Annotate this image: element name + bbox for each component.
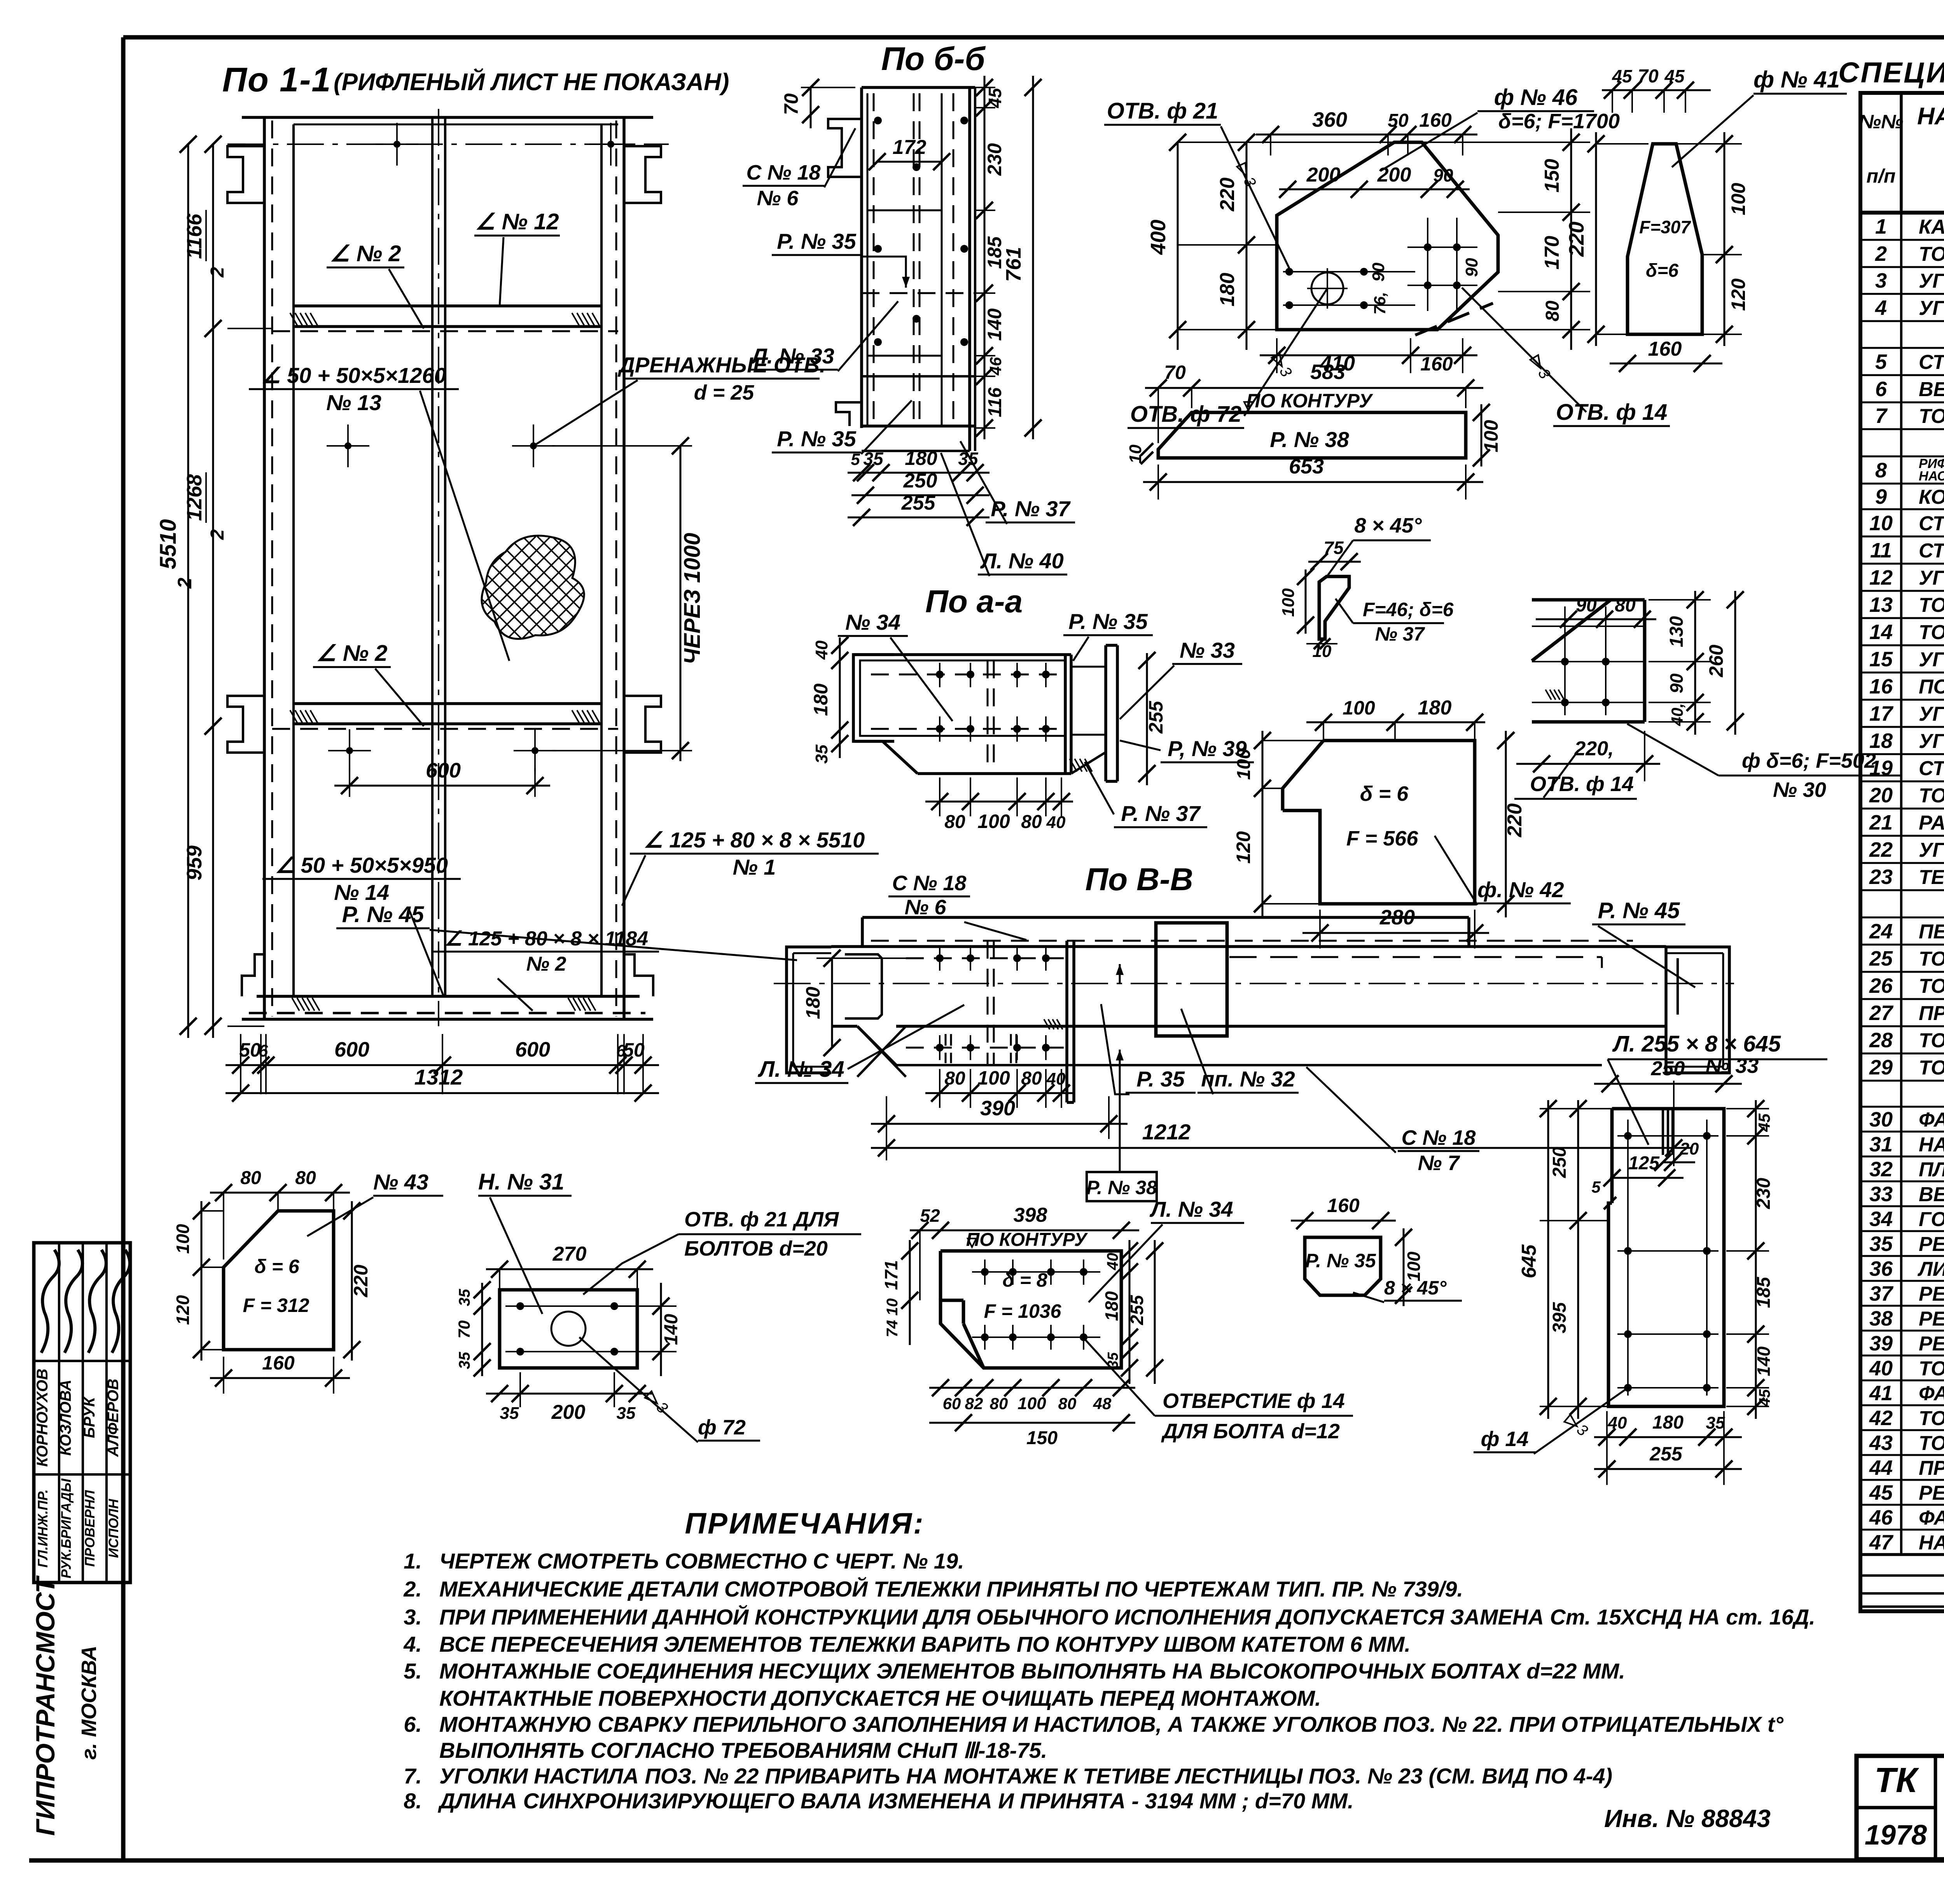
svg-text:F=46; δ=6: F=46; δ=6 (1363, 599, 1454, 620)
svg-text:ДЛЯ БОЛТА d=12: ДЛЯ БОЛТА d=12 (1161, 1420, 1340, 1443)
svg-text:По 1-1: По 1-1 (222, 60, 332, 99)
view A: frame column section (227, 109, 669, 1026)
svg-text:∠ № 2: ∠ № 2 (316, 641, 388, 666)
svg-text:ВЫПОЛНЯТЬ СОГЛАСНО ТРЕБОВАНИЯМ: ВЫПОЛНЯТЬ СОГЛАСНО ТРЕБОВАНИЯМ СНиП Ⅲ-18… (439, 1738, 1047, 1763)
svg-text:ОТВ. ф 14: ОТВ. ф 14 (1530, 772, 1634, 796)
svg-text:761: 761 (1002, 247, 1025, 282)
svg-text:35: 35 (1869, 1232, 1893, 1256)
view J bottom dims 80 100 80 40 (925, 1067, 1073, 1108)
svg-text:ГЛ.ИНЖ.ПР.: ГЛ.ИНЖ.ПР. (35, 1489, 51, 1567)
svg-text:ДЛИНА СИНХРОНИЗИРУЮЩЕГО ВАЛА И: ДЛИНА СИНХРОНИЗИРУЮЩЕГО ВАЛА ИЗМЕНЕНА И … (438, 1789, 1354, 1813)
spec table rows (1860, 213, 1944, 1555)
svg-text:δ = 6: δ = 6 (254, 1256, 300, 1277)
detail C bottom dims 410 160 (1260, 338, 1477, 375)
svg-text:С № 18: С № 18 (746, 161, 821, 184)
svg-text:ПО КОНТУРУ: ПО КОНТУРУ (966, 1230, 1088, 1250)
svg-text:40: 40 (812, 640, 831, 660)
svg-text:Р. № 35: Р. № 35 (777, 426, 856, 451)
svg-text:№ 6: № 6 (757, 187, 799, 210)
svg-text:220: 220 (1216, 178, 1239, 212)
totals rows (1860, 1553, 1944, 1613)
svg-text:№ 33: № 33 (1180, 638, 1235, 662)
svg-text:220: 220 (1503, 804, 1526, 838)
svg-text:45: 45 (1869, 1481, 1893, 1504)
svg-text:42: 42 (1869, 1406, 1893, 1430)
svg-text:4: 4 (1875, 296, 1887, 320)
svg-text:ФАСОНКА ТЕЛЕЖКИ: ФАСОНКА ТЕЛЕЖКИ (1919, 1382, 1944, 1405)
detail C dims 200 200 90 (1279, 164, 1470, 198)
svg-text:Л. № 33: Л. № 33 (750, 344, 834, 368)
svg-text:171: 171 (881, 1260, 901, 1290)
svg-text:80: 80 (1058, 1394, 1077, 1413)
svg-text:ВЕРТИК. ЛИСТ КОРОБА: ВЕРТИК. ЛИСТ КОРОБА (1919, 1183, 1944, 1206)
svg-text:360: 360 (1312, 108, 1347, 131)
svg-text:250: 250 (1549, 1147, 1570, 1178)
view G right dim 255 (1138, 652, 1167, 785)
svg-text:70: 70 (780, 93, 802, 115)
svg-text:180: 180 (810, 683, 832, 716)
detail H top dims 100 180 (1306, 697, 1485, 741)
svg-text:140: 140 (984, 308, 1005, 341)
view G section (853, 645, 1117, 781)
svg-text:600: 600 (515, 1038, 550, 1061)
svg-text:40: 40 (1046, 813, 1066, 832)
svg-text:1978: 1978 (1865, 1820, 1927, 1851)
svg-text:ф № 46: ф № 46 (1494, 85, 1578, 110)
svg-text:255: 255 (1145, 700, 1167, 734)
svg-text:255: 255 (1127, 1294, 1147, 1325)
svg-text:№ 13: № 13 (326, 390, 381, 415)
svg-text:27: 27 (1869, 1001, 1894, 1025)
svg-text:F = 566: F = 566 (1346, 827, 1419, 850)
svg-text:УГОЛОК СВЯЗУЮЩИЙ: УГОЛОК СВЯЗУЮЩИЙ (1919, 648, 1944, 671)
svg-text:ТО ЖЕ: ТО ЖЕ (1919, 594, 1944, 617)
svg-text:г. МОСКВА: г. МОСКВА (77, 1645, 101, 1759)
svg-text:600: 600 (334, 1038, 369, 1061)
svg-text:ТО ЖЕ: ТО ЖЕ (1919, 243, 1944, 266)
svg-text:ТК: ТК (1874, 1761, 1920, 1800)
svg-text:УГОЛОК: УГОЛОК (1919, 270, 1944, 292)
svg-text:ТО ЖЕ: ТО ЖЕ (1919, 1357, 1944, 1380)
detail H left dims 100 120 (1232, 731, 1323, 917)
svg-text:8: 8 (1875, 459, 1887, 482)
svg-text:ОТВ. ф 21 ДЛЯ: ОТВ. ф 21 ДЛЯ (684, 1208, 839, 1231)
svg-text:С № 18: С № 18 (1402, 1126, 1476, 1149)
svg-text:200: 200 (1306, 164, 1341, 186)
svg-text:45: 45 (985, 87, 1005, 108)
svg-text:36: 36 (1869, 1257, 1893, 1280)
svg-text:100: 100 (1727, 183, 1749, 215)
svg-text:ТО ЖЕ: ТО ЖЕ (1919, 784, 1944, 807)
svg-text:60: 60 (943, 1394, 961, 1413)
svg-text:№ 30: № 30 (1773, 778, 1826, 802)
svg-text:46: 46 (986, 357, 1005, 376)
svg-text:35: 35 (1105, 1352, 1121, 1369)
detail I right dims 130 90 40 260 (1649, 591, 1744, 735)
detail N top dim 160 (1291, 1195, 1396, 1229)
detail H right dim 220 (1497, 731, 1526, 917)
svg-text:С № 18: С № 18 (892, 872, 967, 895)
svg-text:8 × 45°: 8 × 45° (1354, 514, 1422, 537)
organization name rotated (31, 1575, 101, 1836)
svg-text:959: 959 (183, 845, 206, 880)
view A bottom dimensions (226, 1034, 659, 1102)
svg-text:100: 100 (1017, 1394, 1046, 1413)
view J dim 1212 (871, 1081, 1691, 1166)
svg-text:180: 180 (802, 987, 824, 1019)
svg-text:ПО КОНТУРУ: ПО КОНТУРУ (1246, 390, 1374, 412)
svg-text:40: 40 (1608, 1413, 1627, 1432)
svg-text:45: 45 (1756, 1389, 1773, 1407)
detail E dim 653 (1143, 455, 1483, 500)
svg-text:398: 398 (1014, 1204, 1047, 1226)
svg-text:СПЕЦИФИКАЦИЯ МЕТАЛЛА НА ОДН: СПЕЦИФИКАЦИЯ МЕТАЛЛА НА ОДНУ ТЕЛЕЖКУ (1838, 56, 1944, 89)
view A dimension 600 (middle) (334, 759, 550, 797)
detail K top dims 80 80 (210, 1168, 350, 1259)
svg-text:F=307: F=307 (1639, 217, 1691, 237)
detail L left dims 35 70 35 (455, 1281, 491, 1376)
svg-text:46: 46 (1869, 1506, 1893, 1529)
detail O top dim 250 (1594, 1057, 1742, 1092)
detail M right dims 40 180 35 255 (1101, 1240, 1163, 1384)
svg-text:9: 9 (1875, 485, 1887, 508)
svg-text:47: 47 (1869, 1531, 1894, 1554)
svg-text:КОРНОУХОВ: КОРНОУХОВ (34, 1369, 51, 1467)
svg-text:Л. № 34: Л. № 34 (1149, 1197, 1233, 1221)
svg-text:255: 255 (901, 492, 936, 514)
svg-text:ПЕРИЛЬНОЕ ЗАПОЛНЕНИЕ: ПЕРИЛЬНОЕ ЗАПОЛНЕНИЕ (1919, 921, 1944, 943)
svg-text:22: 22 (1869, 838, 1893, 861)
svg-text:№ 43: № 43 (373, 1170, 428, 1194)
svg-text:ГОРИЗОНТАЛ. ЛИСТ: ГОРИЗОНТАЛ. ЛИСТ (1919, 1208, 1944, 1231)
svg-text:37: 37 (1869, 1282, 1894, 1305)
svg-text:Р. № 35: Р. № 35 (777, 229, 856, 253)
detail D bottom dim 160 (1610, 338, 1722, 372)
svg-text:80: 80 (1542, 300, 1563, 321)
svg-text:230: 230 (984, 143, 1005, 176)
svg-text:20: 20 (1680, 1139, 1699, 1158)
svg-text:80: 80 (1615, 595, 1636, 616)
detail I top dims 90 80 (1536, 595, 1656, 628)
svg-text:ПРОКЛАДКА: ПРОКЛАДКА (1919, 1457, 1944, 1480)
svg-text:17: 17 (1869, 702, 1894, 725)
svg-text:НАКЛАДКА: НАКЛАДКА (1919, 1134, 1944, 1156)
detail M bottom dims 60 82 80 100 80 48 150 (929, 1379, 1135, 1448)
svg-text:220: 220 (1565, 222, 1588, 257)
svg-text:Л. № 40: Л. № 40 (980, 548, 1064, 573)
svg-text:80: 80 (944, 812, 965, 832)
svg-text:ОТВ. ф 21: ОТВ. ф 21 (1107, 98, 1218, 124)
svg-text:140: 140 (1753, 1346, 1774, 1376)
svg-text:ФАСОНКА: ФАСОНКА (1919, 1109, 1944, 1131)
svg-text:1166: 1166 (183, 213, 206, 259)
detail H plate ф№42 (1283, 741, 1475, 904)
detail N right dim 100 (1395, 1228, 1424, 1306)
svg-text:24: 24 (1869, 920, 1893, 943)
svg-text:№ 14: № 14 (334, 880, 389, 905)
svg-text:ЧЕРЕЗ 1000: ЧЕРЕЗ 1000 (680, 533, 705, 665)
svg-text:2: 2 (207, 529, 228, 540)
svg-text:160: 160 (1648, 338, 1682, 360)
detail D top dims 45 70 45 (1602, 66, 1711, 113)
svg-text:ТО ЖЕ: ТО ЖЕ (1919, 1057, 1944, 1079)
svg-text:РАСКОСЫ РАМЫ: РАСКОСЫ РАМЫ (1919, 812, 1944, 834)
svg-text:СТОЙКА ПЕРИЛЬНАЯ: СТОЙКА ПЕРИЛЬНАЯ (1919, 539, 1944, 562)
svg-text:180: 180 (905, 447, 937, 469)
svg-text:160: 160 (1327, 1195, 1360, 1216)
svg-text:№ 34: № 34 (845, 610, 900, 634)
svg-text:∠ № 2: ∠ № 2 (330, 241, 401, 266)
svg-text:35: 35 (617, 1404, 636, 1423)
svg-text:КОНТАКТНЫЕ ПОВЕРХНОСТИ ДОПУСКА: КОНТАКТНЫЕ ПОВЕРХНОСТИ ДОПУСКАЕТСЯ НЕ ОЧ… (439, 1686, 1321, 1710)
svg-text:125: 125 (1628, 1153, 1660, 1174)
view B right dim chain (975, 76, 1005, 439)
svg-text:СТОЙКА ТЕЛЕЖКИ: СТОЙКА ТЕЛЕЖКИ (1919, 512, 1944, 535)
svg-text:70: 70 (1164, 362, 1186, 383)
svg-text:230: 230 (1753, 1178, 1774, 1209)
svg-text:ЛИСТ: ЛИСТ (1917, 1258, 1944, 1280)
svg-text:п/п: п/п (1867, 165, 1896, 187)
svg-text:120: 120 (173, 1295, 193, 1325)
detail M left dims 171 74 10 (881, 1240, 918, 1345)
svg-text:200: 200 (1377, 164, 1411, 186)
view J dim 390 (871, 1096, 1128, 1160)
detail C gusset plate ф№46 (1277, 142, 1498, 335)
svg-text:40: 40 (1869, 1357, 1893, 1380)
svg-text:1: 1 (1875, 215, 1887, 238)
svg-text:38: 38 (1869, 1307, 1893, 1330)
svg-text:РЕБРО ВЕРТИКАЛЬН.: РЕБРО ВЕРТИКАЛЬН. (1919, 1308, 1944, 1330)
svg-text:5.: 5. (404, 1659, 422, 1683)
svg-text:∠ 50 + 50×5×950: ∠ 50 + 50×5×950 (275, 853, 448, 877)
svg-text:150: 150 (1541, 159, 1563, 193)
svg-text:Р. № 37: Р. № 37 (1121, 801, 1201, 826)
svg-text:100: 100 (977, 1067, 1010, 1089)
detail D left dim 220 (1565, 132, 1649, 346)
svg-text:∠ № 12: ∠ № 12 (475, 209, 559, 234)
detail C right dims 150 170 80 (1422, 128, 1590, 350)
svg-text:СТОЙКА РАМЫ: СТОЙКА РАМЫ (1919, 756, 1944, 780)
svg-text:Инв. № 88843: Инв. № 88843 (1604, 1804, 1771, 1832)
svg-text:45: 45 (1755, 1113, 1773, 1132)
svg-text:РЕБРО ОКАЙМЛЯЮЩЕЕ: РЕБРО ОКАЙМЛЯЮЩЕЕ (1919, 1332, 1944, 1355)
view J dim 180 left (802, 950, 914, 1056)
view J label Р.№38 boxed (1087, 1172, 1157, 1201)
svg-text:ПРИМЕЧАНИЯ:: ПРИМЕЧАНИЯ: (685, 1507, 925, 1540)
svg-text:5510: 5510 (156, 519, 181, 569)
svg-text:ф δ=6; F=502: ф δ=6; F=502 (1742, 749, 1876, 772)
spec table (1859, 93, 1944, 1611)
svg-text:21: 21 (1869, 811, 1893, 834)
svg-text:∠ 50 + 50×5×1260: ∠ 50 + 50×5×1260 (261, 363, 446, 388)
svg-text:34: 34 (1869, 1207, 1893, 1231)
svg-text:8.: 8. (404, 1789, 422, 1813)
svg-text:80: 80 (944, 1068, 965, 1089)
detail D right dims 100 120 (1676, 132, 1749, 346)
svg-text:29: 29 (1869, 1056, 1893, 1079)
svg-text:180: 180 (1216, 273, 1239, 307)
svg-text:ВСЕ ПЕРЕСЕЧЕНИЯ ЭЛЕМЕНТОВ ТЕЛЕ: ВСЕ ПЕРЕСЕЧЕНИЯ ЭЛЕМЕНТОВ ТЕЛЕЖКИ ВАРИТЬ… (439, 1632, 1411, 1656)
svg-text:МОНТАЖНЫЕ СОЕДИНЕНИЯ НЕСУЩИХ Э: МОНТАЖНЫЕ СОЕДИНЕНИЯ НЕСУЩИХ ЭЛЕМЕНТОВ В… (439, 1659, 1625, 1683)
svg-text:35: 35 (1706, 1413, 1725, 1432)
svg-text:160: 160 (262, 1352, 295, 1374)
detail K bottom dim 160 (210, 1352, 350, 1394)
svg-text:δ = 6: δ = 6 (1360, 782, 1409, 805)
view B dim 70 (780, 79, 855, 128)
svg-text:50: 50 (1388, 110, 1409, 131)
svg-text:1268: 1268 (183, 474, 206, 521)
svg-text:7: 7 (1875, 404, 1888, 428)
svg-text:РЕБРО ГОРИЗОНТ.: РЕБРО ГОРИЗОНТ. (1919, 1482, 1944, 1504)
svg-text:УГОЛКИ НАСТИЛА ПОЗ. № 22 ПРИВА: УГОЛКИ НАСТИЛА ПОЗ. № 22 ПРИВАРИТЬ НА МО… (439, 1764, 1612, 1788)
svg-text:Р. № 35: Р. № 35 (1305, 1250, 1376, 1272)
svg-text:100: 100 (1279, 588, 1298, 617)
svg-text:Л. 255 × 8 × 645: Л. 255 × 8 × 645 (1612, 1031, 1781, 1057)
svg-text:№ 33: № 33 (1706, 1054, 1759, 1078)
svg-text:70: 70 (455, 1321, 473, 1339)
svg-text:14: 14 (1869, 620, 1893, 644)
detail K right dim 220 (343, 1201, 372, 1361)
svg-text:№ 7: № 7 (1418, 1151, 1461, 1175)
svg-text:Р. № 38: Р. № 38 (1086, 1177, 1157, 1198)
svg-text:ТО ЖЕ: ТО ЖЕ (1919, 405, 1944, 428)
svg-text:МЕХАНИЧЕСКИЕ ДЕТАЛИ СМОТРОВОЙ: МЕХАНИЧЕСКИЕ ДЕТАЛИ СМОТРОВОЙ ТЕЛЕЖКИ ПР… (439, 1577, 1463, 1601)
notes list (403, 1549, 1815, 1813)
detail O bottom dims 40 180 35 255 (1594, 1411, 1742, 1485)
svg-text:№№: №№ (1859, 111, 1904, 133)
svg-text:10: 10 (1869, 512, 1893, 535)
svg-text:45: 45 (1664, 66, 1685, 86)
detail O dims 20 125 (1603, 1139, 1699, 1186)
svg-text:39: 39 (1869, 1332, 1893, 1355)
svg-text:43: 43 (1869, 1431, 1893, 1455)
svg-text:По В-В: По В-В (1085, 862, 1193, 897)
svg-text:ПОДКОС: ПОДКОС (1919, 676, 1944, 698)
svg-text:ТО ЖЕ: ТО ЖЕ (1919, 1029, 1944, 1052)
svg-text:БОЛТОВ d=20: БОЛТОВ d=20 (684, 1237, 828, 1260)
svg-text:15: 15 (1869, 648, 1893, 671)
svg-text:31: 31 (1869, 1133, 1893, 1156)
detail M top dims 52 398 (910, 1204, 1139, 1300)
svg-text:(РИФЛЕНЫЙ ЛИСТ НЕ ПОКАЗАН): (РИФЛЕНЫЙ ЛИСТ НЕ ПОКАЗАН) (334, 68, 729, 96)
svg-text:35: 35 (500, 1404, 519, 1423)
detail F dim 75 (1308, 538, 1361, 570)
svg-text:№ 37: № 37 (1375, 623, 1425, 645)
svg-text:90: 90 (1369, 262, 1388, 281)
detail L bottom dims 35 200 35 (486, 1372, 653, 1424)
svg-text:270: 270 (552, 1243, 587, 1265)
svg-text:УГОЛОК ПЛОЩАДКИ: УГОЛОК ПЛОЩАДКИ (1919, 839, 1944, 861)
svg-text:УГОЛОК НАСТИЛА: УГОЛОК НАСТИЛА (1919, 567, 1944, 589)
svg-text:170: 170 (1541, 236, 1563, 270)
view B dim 761 (1002, 76, 1042, 439)
svg-text:ТЕТИВА ЛЕСТНИЦЫ: ТЕТИВА ЛЕСТНИЦЫ (1919, 866, 1944, 889)
detail C left dims 400 220 180 (1147, 134, 1396, 350)
svg-text:653: 653 (1289, 455, 1324, 478)
svg-text:44: 44 (1869, 1456, 1893, 1480)
svg-text:ЧЕРТЕЖ СМОТРЕТЬ СОВМЕСТНО С Ч: ЧЕРТЕЖ СМОТРЕТЬ СОВМЕСТНО С ЧЕРТ. № 19. (439, 1549, 964, 1573)
svg-text:1312: 1312 (414, 1065, 463, 1089)
svg-text:ОТВ. ф 14: ОТВ. ф 14 (1556, 400, 1668, 425)
detail M plate Л.№34 (941, 1251, 1121, 1368)
svg-text:90: 90 (1666, 673, 1687, 693)
svg-text:НАСТИЛА ГОСТ 8568–57: НАСТИЛА ГОСТ 8568–57 (1919, 469, 1944, 484)
view A left dimension 5510 (156, 136, 197, 1038)
svg-text:δ=6: δ=6 (1646, 260, 1678, 281)
svg-text:Р. 35: Р. 35 (1136, 1067, 1185, 1091)
svg-text:6.: 6. (404, 1712, 422, 1736)
svg-text:ПЛАНКА СОЕДИНИТ.: ПЛАНКА СОЕДИНИТ. (1919, 1158, 1944, 1181)
svg-text:185: 185 (1753, 1277, 1774, 1308)
svg-text:УГОЛОК СВЯЗУЮЩИЙ: УГОЛОК СВЯЗУЮЩИЙ (1919, 729, 1944, 753)
detail I gusset №30 (1532, 600, 1645, 722)
svg-text:35: 35 (812, 744, 831, 763)
svg-text:25: 25 (1869, 947, 1893, 970)
svg-text:НАИМЕНОВАНИЕ: НАИМЕНОВАНИЕ (1917, 103, 1944, 130)
svg-text:КОЗЛОВА: КОЗЛОВА (57, 1380, 74, 1456)
svg-text:ПРОВЕРНЛ: ПРОВЕРНЛ (82, 1490, 98, 1567)
svg-text:№ 2: № 2 (526, 953, 566, 975)
view B bottom dims (848, 447, 989, 526)
svg-text:Р. № 35: Р. № 35 (1068, 609, 1148, 634)
svg-text:ИСПОЛН: ИСПОЛН (106, 1499, 121, 1558)
svg-text:26: 26 (1869, 974, 1893, 997)
svg-text:35: 35 (863, 449, 884, 469)
svg-text:75: 75 (1323, 538, 1344, 558)
svg-text:СТОЙКА ТЕЛЕЖКИ: СТОЙКА ТЕЛЕЖКИ (1919, 350, 1944, 374)
svg-text:80: 80 (1021, 1068, 1042, 1089)
svg-text:4.: 4. (403, 1632, 422, 1656)
svg-text:250: 250 (1651, 1057, 1685, 1080)
svg-text:ф 72: ф 72 (698, 1416, 746, 1439)
svg-text:5: 5 (1591, 1178, 1601, 1196)
left stamp table (34, 1243, 130, 1583)
svg-text:180: 180 (1652, 1412, 1684, 1433)
svg-text:АЛФЕРОВ: АЛФЕРОВ (105, 1379, 122, 1457)
svg-text:90: 90 (1576, 595, 1597, 616)
svg-text:5: 5 (1875, 350, 1887, 374)
svg-text:35: 35 (456, 1352, 473, 1369)
detail L plate Н.№31 (500, 1290, 637, 1368)
svg-text:100: 100 (173, 1224, 193, 1254)
svg-text:ОТВ. ф 72: ОТВ. ф 72 (1130, 402, 1242, 427)
svg-text:РЕБРО: РЕБРО (1919, 1283, 1944, 1305)
svg-text:ВЕРХНИЙ ШВЕЛЛЕР: ВЕРХНИЙ ШВЕЛЛЕР (1919, 377, 1944, 401)
svg-text:УГОЛОК ПРЕДОХРАНИТ.: УГОЛОК ПРЕДОХРАНИТ. (1919, 297, 1944, 320)
svg-text:1.: 1. (404, 1549, 422, 1573)
svg-text:Р. № 45: Р. № 45 (1598, 898, 1680, 923)
detail O left dims 645 250 395 (1518, 1100, 1612, 1419)
svg-text:23: 23 (1869, 865, 1893, 889)
svg-text:Н. № 31: Н. № 31 (478, 1169, 564, 1195)
svg-text:400: 400 (1147, 220, 1170, 255)
svg-text:645: 645 (1518, 1244, 1540, 1279)
svg-text:МОНТАЖНУЮ СВАРКУ ПЕРИЛЬНОГО ЗА: МОНТАЖНУЮ СВАРКУ ПЕРИЛЬНОГО ЗАПОЛНЕНИЯ И… (439, 1712, 1784, 1736)
svg-text:120: 120 (1232, 831, 1254, 864)
detail O plate Л.255x8x645 (1608, 1109, 1724, 1406)
svg-text:74 10: 74 10 (884, 1298, 901, 1337)
svg-text:50: 50 (239, 1039, 261, 1061)
svg-text:ТО ЖЕ: ТО ЖЕ (1919, 1407, 1944, 1430)
detail L top dim 270 (486, 1243, 653, 1290)
svg-text:220: 220 (350, 1265, 372, 1298)
svg-text:76,: 76, (1371, 292, 1389, 314)
view G bottom dims 80 100 80 40 (925, 777, 1073, 832)
svg-text:150: 150 (1026, 1428, 1058, 1448)
svg-text:КАРКАС ТЕЛЕЖКИ: КАРКАС ТЕЛЕЖКИ (1919, 216, 1944, 238)
view A left dimension chain (183, 136, 272, 1038)
svg-text:180: 180 (1418, 697, 1452, 719)
